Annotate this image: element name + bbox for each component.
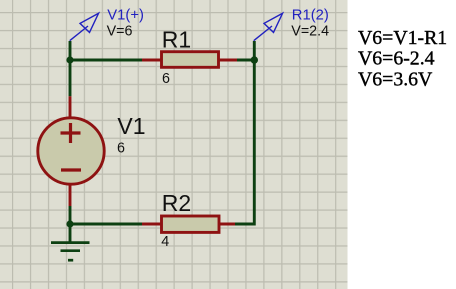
resistor R1 — [142, 52, 237, 68]
svg-text:V6=6-2.4: V6=6-2.4 — [358, 48, 435, 70]
wire right vertical node B down to R2 pin 2 — [235, 60, 254, 224]
probe label V1(+) — [107, 8, 144, 24]
label R2 — [162, 190, 191, 216]
value 6 of V1 — [117, 140, 125, 156]
junction node A — [66, 56, 73, 63]
svg-text:R1(2): R1(2) — [292, 8, 329, 24]
label R1 — [162, 27, 191, 53]
resistor R2 — [142, 216, 235, 232]
svg-text:V=6: V=6 — [107, 24, 133, 40]
svg-text:V6=3.6V: V6=3.6V — [358, 68, 433, 90]
svg-text:6: 6 — [117, 140, 125, 156]
ground — [51, 243, 90, 261]
svg-text:4: 4 — [161, 234, 169, 250]
label V1 — [117, 113, 145, 139]
svg-text:V6=V1-R1: V6=V1-R1 — [358, 27, 447, 49]
annotation line V6=V1-R1 — [358, 27, 447, 49]
wire probe stub node A — [69, 41, 72, 60]
svg-text:R1: R1 — [162, 27, 191, 53]
svg-text:R2: R2 — [162, 190, 191, 216]
annotation line V6=6-2.4 — [358, 48, 435, 70]
junction node C — [66, 220, 73, 227]
voltage source V1 — [38, 96, 104, 206]
value 4 of R2 — [161, 234, 169, 250]
voltage probe V1(+) — [70, 13, 99, 41]
annotation line V6=3.6V — [358, 68, 433, 90]
value 6 of R1 — [162, 71, 170, 87]
svg-text:6: 6 — [162, 71, 170, 87]
svg-text:V=2.4: V=2.4 — [291, 24, 329, 40]
wire V1 negative pin to node C and ground — [69, 206, 72, 243]
wire node A down to V1 positive pin — [69, 60, 72, 96]
wire R1 pin 2 to node B — [237, 59, 254, 62]
wire top node A to R1 pin 1 — [70, 59, 142, 62]
probe reading V=2.4 — [291, 24, 329, 40]
junction node B — [251, 56, 258, 63]
voltage probe R1(2) — [254, 13, 283, 41]
wire bottom node C to R2 pin 1 — [70, 223, 142, 226]
svg-text:V1(+): V1(+) — [107, 8, 144, 24]
wire probe stub node B — [253, 41, 256, 60]
probe reading V=6 — [107, 24, 133, 40]
svg-text:V1: V1 — [117, 113, 145, 139]
probe label R1(2) — [292, 8, 329, 24]
